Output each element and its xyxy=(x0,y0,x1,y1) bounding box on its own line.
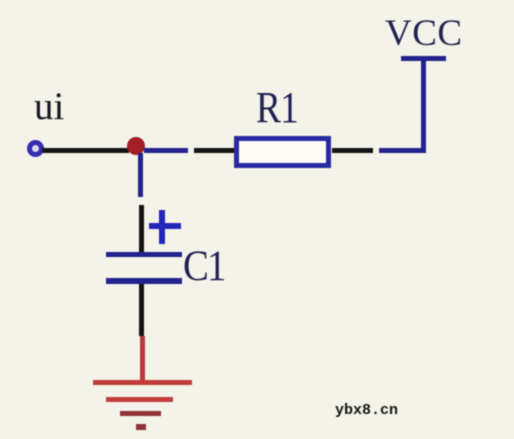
resistor R1 body xyxy=(234,136,331,168)
label R1 xyxy=(256,82,298,133)
junction dot xyxy=(127,137,145,155)
ground bar 2 xyxy=(106,397,173,402)
wire down to capacitor (black) xyxy=(139,205,144,252)
wire gap to VCC corner (blue) xyxy=(379,148,426,153)
wire gap to resistor (black) xyxy=(194,148,234,153)
watermark ybx8.cn xyxy=(335,402,398,419)
label C1 xyxy=(183,242,225,291)
ground bar 3 xyxy=(120,411,161,416)
wire to ground (red) xyxy=(140,336,145,382)
wire resistor to gap (black) xyxy=(332,148,373,153)
wire capacitor to red (black) xyxy=(139,284,144,336)
ground dot xyxy=(136,424,146,430)
label VCC xyxy=(385,12,463,55)
input port terminal xyxy=(27,140,44,157)
capacitor C1 bottom plate xyxy=(106,278,182,284)
wire junction to gap (blue) xyxy=(144,148,188,153)
wire input to junction xyxy=(42,148,129,153)
polarity plus sign xyxy=(149,223,181,229)
wire VCC vertical xyxy=(421,58,426,153)
wire junction down (blue) xyxy=(138,153,143,197)
node ui label xyxy=(34,84,64,129)
VCC power bar xyxy=(401,56,446,61)
ground bar 1 xyxy=(93,380,192,385)
capacitor C1 top plate xyxy=(106,252,182,257)
